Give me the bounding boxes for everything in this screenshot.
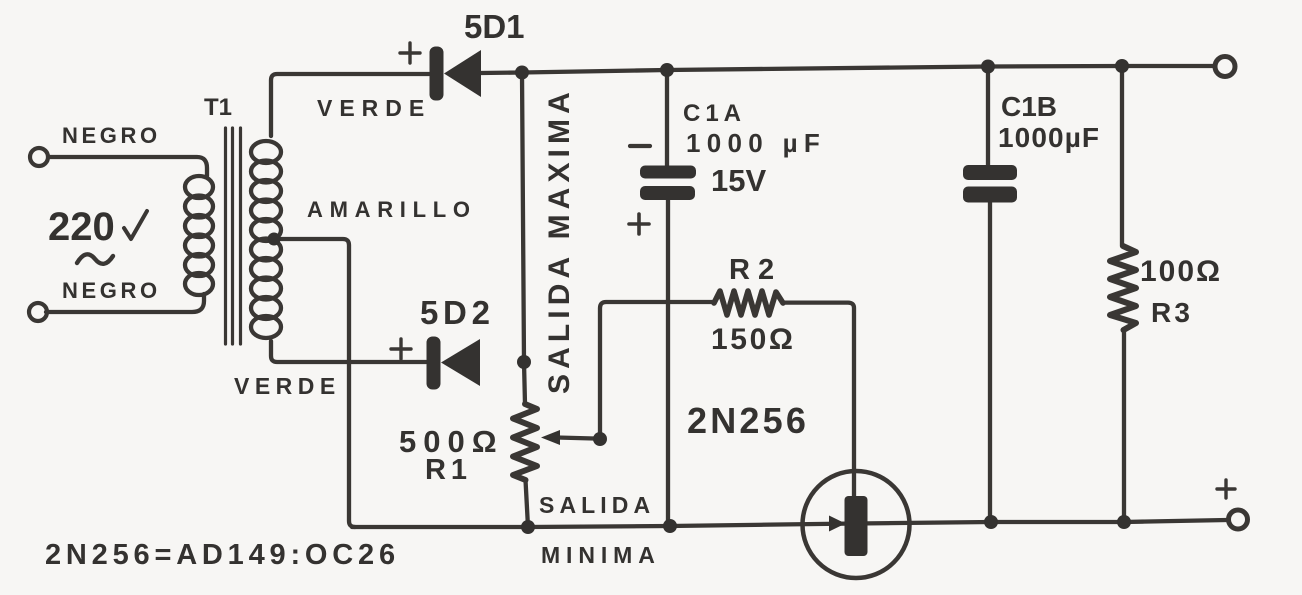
svg-text:T1: T1 — [204, 94, 232, 121]
svg-text:1000µF: 1000µF — [998, 122, 1100, 153]
svg-text:C1A: C1A — [683, 100, 746, 127]
svg-text:5D2: 5D2 — [420, 294, 495, 331]
svg-text:5D1: 5D1 — [464, 8, 525, 45]
svg-text:SALIDA: SALIDA — [539, 492, 655, 518]
svg-text:NEGRO: NEGRO — [62, 123, 161, 148]
svg-text:2N256=AD149:OC26: 2N256=AD149:OC26 — [45, 539, 400, 571]
svg-text:MINIMA: MINIMA — [541, 542, 661, 568]
svg-text:150Ω: 150Ω — [711, 323, 796, 356]
svg-text:VERDE: VERDE — [234, 373, 341, 399]
svg-text:R1: R1 — [425, 454, 472, 486]
svg-text:AMARILLO: AMARILLO — [307, 197, 477, 222]
svg-text:220: 220 — [48, 205, 115, 249]
svg-text:NEGRO: NEGRO — [62, 278, 161, 303]
svg-text:SALIDA MAXIMA: SALIDA MAXIMA — [543, 87, 576, 394]
svg-text:VERDE: VERDE — [317, 95, 431, 121]
svg-text:2N256: 2N256 — [687, 400, 809, 441]
svg-text:1000 µF: 1000 µF — [686, 128, 826, 158]
svg-text:R2: R2 — [729, 254, 782, 286]
svg-text:100Ω: 100Ω — [1140, 255, 1222, 288]
svg-text:15V: 15V — [711, 163, 766, 198]
svg-text:R3: R3 — [1151, 297, 1193, 328]
svg-text:C1B: C1B — [1001, 91, 1057, 122]
